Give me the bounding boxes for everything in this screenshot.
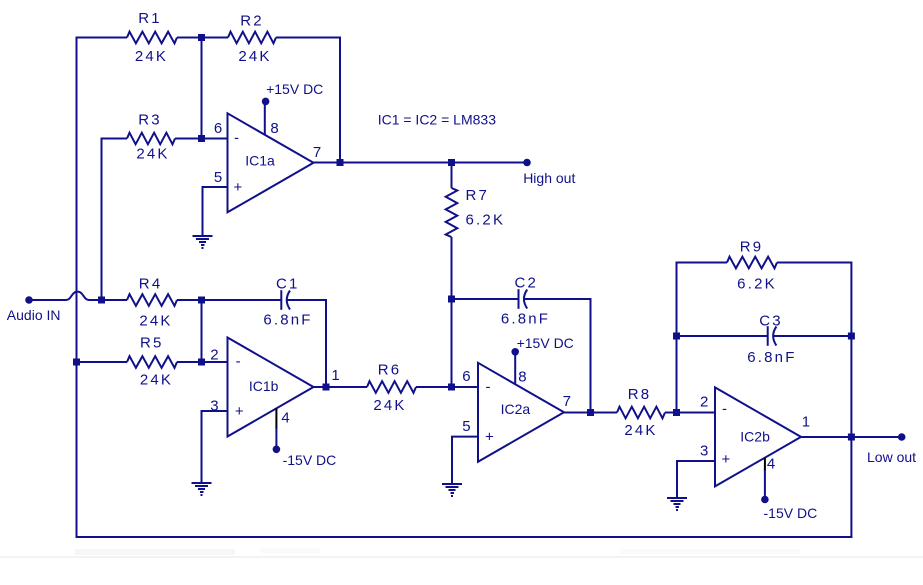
power +15V DC IC1a xyxy=(262,81,324,105)
wire R3 to IC1a pin 6 xyxy=(175,138,228,140)
wire IC2a pin 8 power stem xyxy=(514,352,516,384)
node High out terminal xyxy=(523,159,531,167)
node R1/R2 junction xyxy=(198,34,205,41)
wire right column down to bottom rail xyxy=(850,437,852,538)
wire IC1b output to R6 xyxy=(314,386,368,388)
wire R7 down to C2 node xyxy=(451,237,453,299)
wire C2 feedback down to IC2a output xyxy=(590,298,592,413)
node high-pass branch xyxy=(448,159,455,166)
svg-text:5: 5 xyxy=(462,418,470,435)
wire R6 to IC2a pin 6 xyxy=(416,386,478,388)
wire Audio IN lead with hop over rail xyxy=(29,299,66,301)
capacitor C1 xyxy=(263,276,312,329)
node IC2b output / feedback column xyxy=(848,434,855,441)
svg-text:IC1a: IC1a xyxy=(245,152,275,168)
wire IC2b output to Low out xyxy=(801,436,902,438)
wire IC1a output to High out xyxy=(314,162,528,164)
wire R2 to right corner xyxy=(276,37,340,39)
node Audio IN terminal xyxy=(25,296,33,304)
resistor R5 xyxy=(127,335,177,389)
node IC1a output / feedback xyxy=(337,159,344,166)
svg-text:R4: R4 xyxy=(139,276,163,293)
wire bottom rail xyxy=(76,536,853,538)
svg-text:3: 3 xyxy=(700,443,708,460)
node Audio IN / R3 column junction xyxy=(98,297,105,304)
ground IC2b pin 3 xyxy=(667,497,687,499)
resistor R2 xyxy=(228,13,276,65)
svg-text:8: 8 xyxy=(270,120,278,137)
svg-text:5: 5 xyxy=(214,169,222,186)
wire R1 to R2 xyxy=(177,37,228,39)
svg-text:-: - xyxy=(236,353,241,370)
wire R4 to C1 node xyxy=(177,299,281,301)
svg-text:R6: R6 xyxy=(378,362,402,379)
resistor R7 xyxy=(446,187,505,237)
resistor R4 xyxy=(127,276,177,330)
svg-text:+: + xyxy=(722,451,731,468)
svg-text:1: 1 xyxy=(802,414,810,431)
node R4 / C1 / pin2 column xyxy=(198,297,205,304)
resistor R1 xyxy=(127,10,177,65)
svg-text:6: 6 xyxy=(462,368,470,385)
wire top feedback rail left segment xyxy=(77,37,128,39)
svg-text:C2: C2 xyxy=(515,275,539,292)
wire C2 right to bend xyxy=(525,298,591,300)
capacitor C2 xyxy=(501,275,550,328)
op-amp U IC2a xyxy=(478,363,564,462)
svg-text:24K: 24K xyxy=(373,397,406,414)
power -15V DC IC1b xyxy=(273,446,337,468)
wire R5 lead-in xyxy=(77,361,128,363)
resistor R8 xyxy=(617,386,665,439)
svg-text:24K: 24K xyxy=(136,146,169,163)
svg-text:6.8nF: 6.8nF xyxy=(747,349,796,366)
node R5 / R4 / IC1b pin 2 xyxy=(198,359,205,366)
power +15V DC IC2a xyxy=(511,335,573,356)
svg-text:-: - xyxy=(486,379,491,396)
svg-text:2: 2 xyxy=(700,393,708,410)
svg-text:+15V DC: +15V DC xyxy=(517,335,574,351)
svg-text:IC1b: IC1b xyxy=(249,378,279,394)
node R3 / IC1a pin 6 xyxy=(198,135,205,142)
node C3 right xyxy=(848,333,855,340)
wire column down to R5 line xyxy=(201,300,203,362)
svg-text:-: - xyxy=(234,130,239,147)
wire junction column down to R3 node xyxy=(201,38,203,139)
wire R3 lead-in xyxy=(101,138,128,140)
svg-text:IC2a: IC2a xyxy=(501,401,531,417)
svg-text:-15V DC: -15V DC xyxy=(283,452,337,468)
svg-text:R7: R7 xyxy=(466,187,490,204)
svg-text:IC2b: IC2b xyxy=(740,429,770,445)
svg-text:7: 7 xyxy=(563,393,571,410)
wire IC2a output to R8 xyxy=(564,412,617,414)
svg-text:R3: R3 xyxy=(138,112,162,129)
svg-text:High out: High out xyxy=(523,170,575,186)
svg-text:R9: R9 xyxy=(740,239,764,256)
svg-text:R2: R2 xyxy=(240,13,264,30)
svg-text:R8: R8 xyxy=(628,386,652,403)
svg-text:Audio IN: Audio IN xyxy=(7,307,61,323)
svg-text:6.2K: 6.2K xyxy=(466,211,506,228)
wire R5 to IC1b pin 2 xyxy=(177,361,228,363)
svg-text:C3: C3 xyxy=(759,313,783,330)
faint watermark remnant line xyxy=(0,556,923,558)
wire C2 node to plate xyxy=(452,298,519,300)
node IC2a output / C2 feedback xyxy=(587,409,594,416)
op-amp U IC2b xyxy=(715,387,801,486)
wire IC1b pin 4 stem xyxy=(275,408,277,429)
node R5 tap on rail xyxy=(73,359,80,366)
svg-text:24K: 24K xyxy=(238,48,271,65)
wire IC2b pin 4 stem xyxy=(764,458,766,471)
resistor R6 xyxy=(367,362,416,414)
svg-text:1: 1 xyxy=(331,367,339,384)
svg-text:24K: 24K xyxy=(135,48,168,65)
svg-text:6: 6 xyxy=(214,120,222,137)
wire High out node down to R7 xyxy=(451,163,453,189)
power -15V DC IC2b xyxy=(761,496,817,521)
wire R3 left bend vertical xyxy=(101,139,103,301)
svg-text:4: 4 xyxy=(767,456,775,473)
svg-text:+: + xyxy=(235,403,244,420)
node IC1b output / C1 feedback xyxy=(323,384,330,391)
svg-text:4: 4 xyxy=(281,409,289,426)
ground IC1a pin 5 xyxy=(193,235,213,237)
svg-text:Low out: Low out xyxy=(867,449,916,465)
wire IC2b pin 3 stub xyxy=(676,460,716,462)
node R8 / R9 / C3 / IC2b pin 2 xyxy=(673,409,680,416)
wire R8 to IC2b pin 2 xyxy=(665,412,716,414)
svg-text:-15V DC: -15V DC xyxy=(764,505,818,521)
wire IC1b pin 3 stub xyxy=(201,410,229,412)
wire C3 left segment xyxy=(677,335,768,337)
wire IC1a pin 8 power stem xyxy=(264,101,266,135)
svg-text:+: + xyxy=(485,429,494,446)
node R6 / R7 / IC2a pin 6 xyxy=(448,384,455,391)
svg-text:6.2K: 6.2K xyxy=(737,276,777,293)
svg-text:2: 2 xyxy=(210,347,218,364)
ground IC1b pin 3 xyxy=(192,482,212,484)
wire left rail xyxy=(76,37,78,539)
svg-text:+15V DC: +15V DC xyxy=(266,81,323,97)
svg-text:24K: 24K xyxy=(139,313,172,330)
svg-text:IC1 = IC2 = LM833: IC1 = IC2 = LM833 xyxy=(378,112,497,128)
wire IC2a pin 5 stub xyxy=(451,436,479,438)
svg-text:-: - xyxy=(722,401,727,418)
wire C2 node down to IC2a pin 6 xyxy=(451,299,453,387)
svg-text:24K: 24K xyxy=(140,371,173,388)
wire R2 output vertical down to IC1a output xyxy=(339,37,341,163)
resistor R3 xyxy=(127,112,175,163)
wire C3 right segment xyxy=(774,335,852,337)
node C3 left xyxy=(673,333,680,340)
svg-text:8: 8 xyxy=(518,369,526,386)
op-amp U IC1b xyxy=(228,338,314,437)
svg-text:R1: R1 xyxy=(138,10,162,27)
resistor R9 xyxy=(727,239,777,293)
wire R9/C3 left column xyxy=(676,262,678,413)
svg-text:R5: R5 xyxy=(140,335,164,352)
wire R9/C3 right column down to output xyxy=(850,262,852,438)
wire R9 lead-in xyxy=(676,262,728,264)
svg-text:7: 7 xyxy=(313,144,321,161)
svg-text:+: + xyxy=(234,179,243,196)
node R7 / C2 xyxy=(448,296,455,303)
wire R9 to right column xyxy=(777,262,851,264)
svg-text:24K: 24K xyxy=(624,422,657,439)
svg-text:C1: C1 xyxy=(276,276,300,293)
ground IC2a pin 5 xyxy=(442,483,462,485)
node Low out terminal xyxy=(898,433,906,441)
svg-text:6.8nF: 6.8nF xyxy=(501,311,550,328)
wire C1 feedback down to IC1b output xyxy=(325,299,327,387)
op-amp U IC1a xyxy=(228,113,314,212)
wire IC1a pin 5 stub xyxy=(202,186,229,188)
wire C1 to right bend xyxy=(287,299,326,301)
svg-text:6.8nF: 6.8nF xyxy=(263,311,312,328)
capacitor C3 xyxy=(747,313,796,366)
